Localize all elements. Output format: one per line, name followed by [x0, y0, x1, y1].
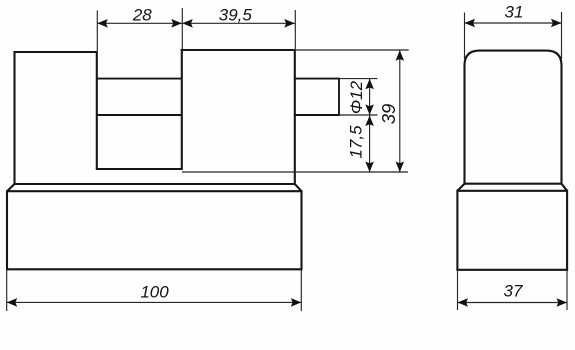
svg-text:Φ12: Φ12 — [347, 80, 366, 114]
dimension line 100 — [7, 301, 302, 303]
wire: right block top edge — [181, 49, 295, 51]
svg-text:17,5: 17,5 — [347, 125, 366, 159]
extension line below base left — [6, 270, 8, 311]
arrow 31 left — [465, 19, 476, 28]
extension line right of pin bottom — [339, 114, 378, 116]
wire: hole upper edge in slot — [97, 78, 182, 80]
pin (shackle stub) on right side of front view — [295, 78, 339, 116]
wire: left block left edge — [13, 51, 15, 185]
arrow phi12 up — [365, 79, 374, 90]
wire: pin bottom edge — [295, 114, 339, 116]
wire: slot bottom edge — [96, 168, 183, 170]
dimension line 37 — [458, 302, 568, 304]
extension line at y=172 for 17,5 and 39 — [182, 171, 408, 173]
arrow 31 right — [551, 19, 562, 28]
svg-text:28: 28 — [132, 5, 152, 24]
arrow 39,5 left — [182, 19, 193, 28]
wire: slot left edge — [96, 51, 98, 169]
arrow 39,5 right — [284, 19, 295, 28]
arrow 100 left — [7, 298, 18, 307]
wire: side view body bottom edge — [465, 183, 562, 185]
wire: body bottom edge — [15, 183, 295, 185]
wire: side view base right edge — [566, 190, 568, 270]
front view body outline — [14, 49, 295, 185]
wire: base top edge — [7, 190, 302, 192]
wire: right block right edge — [294, 49, 296, 185]
arrow phi12 down — [365, 104, 374, 115]
wire: side view left chamfer — [457, 184, 464, 191]
wire: pin right edge — [338, 78, 340, 116]
side view body — [456, 51, 568, 270]
extension line above slot right — [181, 8, 183, 49]
extension line above right block right edge — [294, 10, 296, 49]
wire: base bottom edge — [6, 268, 303, 270]
svg-text:39,5: 39,5 — [219, 5, 253, 24]
wire: left block top edge — [14, 51, 97, 53]
dimension line phi12 — [369, 79, 371, 115]
wire: side view base top edge — [457, 190, 567, 192]
extension line below base right — [300, 270, 302, 311]
dimension line 31 — [465, 22, 562, 24]
extension line below side base left — [457, 270, 459, 310]
wire: left chamfer — [7, 184, 15, 191]
extension line right of pin top — [339, 78, 378, 80]
dimension line 17,5 — [369, 116, 371, 173]
arrow 28 left — [97, 19, 108, 28]
svg-text:100: 100 — [140, 282, 169, 301]
arrow 37 left — [458, 298, 469, 307]
wire: side view right chamfer — [562, 184, 568, 191]
dimension line 28 / 39,5 — [97, 22, 294, 24]
svg-text:39: 39 — [378, 104, 399, 125]
svg-text:31: 31 — [505, 3, 524, 22]
wire: side view base left edge — [456, 190, 458, 270]
arrow 28 right — [171, 19, 182, 28]
arrow 39 up — [396, 50, 405, 61]
arrow 39 down — [396, 162, 405, 173]
arrow 100 right — [291, 298, 302, 307]
extension line right of body top — [291, 49, 409, 51]
extension line above side view right — [561, 12, 563, 59]
arrow 17,5 up — [365, 116, 374, 127]
extension line above slot left — [96, 11, 98, 52]
wire: base right edge — [300, 190, 302, 269]
wire: slot right edge — [181, 49, 183, 169]
dimension line 39 — [399, 50, 401, 172]
dimension labels — [132, 3, 524, 302]
wire: base left edge — [6, 190, 8, 269]
wire: right chamfer — [295, 184, 302, 191]
arrow 17,5 down — [365, 162, 374, 173]
wire: rounded top body — [465, 51, 562, 184]
front view base — [6, 184, 303, 269]
wire: side view base bottom edge — [456, 269, 568, 271]
wire: hole lower edge in slot — [97, 114, 182, 116]
wire: pin top edge — [295, 78, 339, 80]
svg-text:37: 37 — [504, 282, 523, 301]
extension line above side view left — [464, 13, 466, 60]
extension line below side base right — [566, 270, 568, 310]
arrow 37 right — [557, 298, 568, 307]
